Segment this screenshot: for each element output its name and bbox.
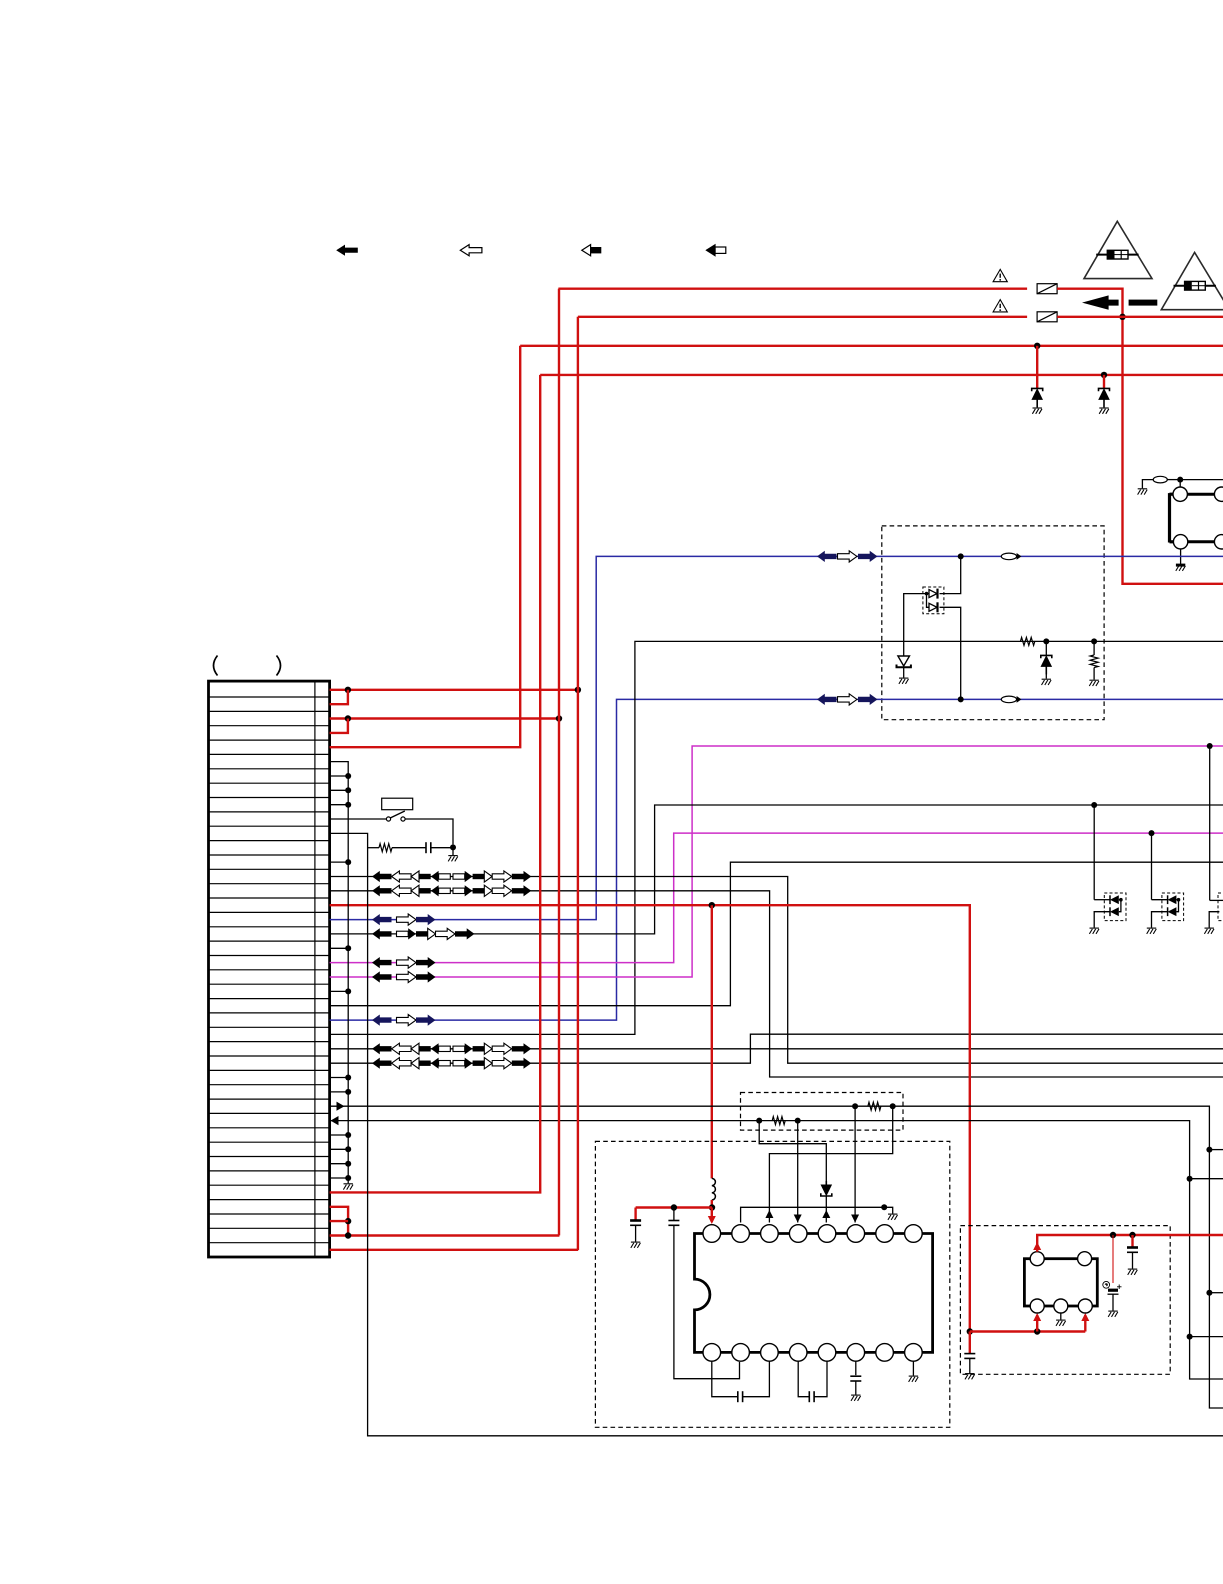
- IC U1 top pins: [703, 1225, 721, 1243]
- junction row31 branch y1178: [1187, 1176, 1193, 1182]
- ESD B2 upper diode (points left): [1168, 895, 1177, 904]
- wire pin32 to ground bus: [330, 1134, 349, 1136]
- wire IC1 pin4-bottom to C4: [798, 1361, 809, 1397]
- wire RC node to ground: [452, 847, 454, 855]
- arrow out on row30: [337, 1102, 345, 1111]
- wire branch right y1149: [1209, 1149, 1223, 1151]
- wire IC1 pin5 via zener D6: [759, 1121, 826, 1181]
- junction magenta row20 / ESD box2: [1149, 830, 1155, 836]
- wire motor feed to page edge: [1180, 479, 1223, 481]
- ESD B2 right node link: [1176, 900, 1178, 912]
- wire red supply row1 right segment to corner: [1057, 289, 1122, 317]
- ESD B2 lower diode (points left): [1168, 907, 1177, 916]
- polarity marker circled B: [1103, 1281, 1110, 1288]
- wire to zener D5: [1045, 641, 1047, 655]
- arrow group on row18: [372, 928, 392, 939]
- fusible-link triangle T1: [1084, 221, 1152, 278]
- resistor R3 on row30: [868, 1102, 881, 1110]
- ground below R2: [1089, 680, 1099, 686]
- dashed box ESD B1: [1104, 893, 1126, 921]
- arrow group on row26: [372, 1043, 392, 1054]
- junction supply row2 / x1122: [1119, 314, 1125, 320]
- ground below D1: [1032, 408, 1042, 414]
- wire C9 to RC node: [431, 847, 453, 849]
- ground IC1 top right: [888, 1214, 898, 1220]
- wire row18 junction down to ESD box1: [1093, 805, 1095, 900]
- legend arrow filled-head outline-tail: [706, 245, 715, 256]
- motor pin circle bottom-right: [1214, 535, 1223, 549]
- dashed box module M1: [882, 526, 1104, 720]
- wire pin29 to ground bus: [330, 1091, 349, 1093]
- wire pin19 to ground bus: [330, 947, 349, 949]
- ground ESD B2: [1147, 928, 1157, 934]
- wire IC1 pin1-bottom to C3: [712, 1361, 738, 1397]
- wire red pin36 net / riser x540: [330, 375, 541, 1193]
- wire magenta row21 net: [330, 746, 1223, 977]
- wire red bottom rail: [970, 1330, 1086, 1332]
- junction row30 / pin3 link: [890, 1103, 896, 1109]
- ground below C5: [851, 1395, 861, 1401]
- wire ESD B1 to ground: [1094, 912, 1110, 928]
- arrow group on row14: [372, 871, 392, 882]
- capacitor C9: [426, 842, 431, 853]
- junction top rail / ground stub: [881, 1204, 887, 1210]
- wire magenta row20 net: [330, 833, 1223, 963]
- wire pin11 long vertical: [330, 833, 1223, 1435]
- wire motor bottom pin to ground: [1180, 549, 1182, 565]
- wire IC1 pin6 from R3 (down): [854, 1106, 856, 1222]
- junction bus pin34: [345, 1161, 351, 1167]
- connector label parentheses: [214, 656, 218, 676]
- capacitor C5: [850, 1376, 861, 1381]
- wire red to zener D1: [1036, 346, 1038, 389]
- fusible-link triangle T2: [1161, 252, 1223, 309]
- wire red pin40 net: [330, 1249, 579, 1251]
- inductor L1: [712, 1178, 716, 1200]
- wire red to zener D2: [1103, 375, 1105, 389]
- wire IC2 middle bottom pin to ground: [1060, 1313, 1062, 1320]
- junction pin1 net / x578 riser: [575, 687, 581, 693]
- junction jumper pin38: [345, 1218, 351, 1224]
- ESD B1 lower diode (points left): [1110, 907, 1119, 916]
- dashed box ESD B3 (clipped): [1218, 893, 1223, 921]
- warning triangle W1: [993, 269, 1007, 281]
- ground below C8: [1128, 1269, 1138, 1275]
- junction jumper pin39: [345, 1232, 351, 1238]
- capacitor C7 (polarized): [1108, 1289, 1118, 1292]
- junction row3 / zener D1: [1034, 343, 1040, 349]
- junction pin3 net / x559 riser: [556, 715, 562, 721]
- dashed box resistor pair: [741, 1093, 904, 1131]
- wire pin33 to ground bus: [330, 1148, 349, 1150]
- wire to oval connector: [1142, 480, 1153, 489]
- junction red row16 / C6: [967, 1328, 973, 1334]
- wire branch right y1336: [1190, 1336, 1223, 1338]
- dashed box dual diode D3: [923, 587, 944, 614]
- wire pin35 to ground bus: [330, 1177, 349, 1179]
- wire C3 to pin3-bottom: [743, 1361, 769, 1397]
- junction bus pin35: [345, 1175, 351, 1181]
- capacitor C6 to ground: [969, 1332, 971, 1354]
- switch SW1: [386, 817, 390, 821]
- junction blue B in module: [958, 696, 964, 702]
- wire red pin5 net / riser x520: [330, 346, 521, 747]
- motor pin circle top-left: [1173, 487, 1187, 501]
- wire ESD B3 to ground: [1209, 912, 1219, 928]
- wire thin red to C7: [1112, 1235, 1114, 1283]
- junction magenta row21 / ESD box3: [1207, 743, 1213, 749]
- wire red to C8: [1131, 1235, 1133, 1247]
- zener diode D1: [1032, 388, 1043, 407]
- wire C7 to ground: [1112, 1294, 1114, 1310]
- ground bus bottom: [343, 1184, 353, 1190]
- wire red feed branch left: [636, 1206, 712, 1208]
- wire into ESD B2 top: [1152, 899, 1168, 901]
- wire red into IC2 pin1-bottom: [1036, 1315, 1038, 1332]
- wire C5 to ground: [855, 1381, 857, 1395]
- wire stub to ground: [884, 1207, 893, 1213]
- junction bus pin8: [345, 787, 351, 793]
- arrow group on blue B (module side): [817, 694, 837, 705]
- wire red rail corner up to IC2 pin3-bottom: [1084, 1315, 1086, 1332]
- wire red pin1 net: [330, 689, 578, 691]
- ground ESD B1: [1089, 928, 1099, 934]
- wire D6 to pin5: [825, 1196, 827, 1223]
- wire diode pair left node: [927, 594, 929, 608]
- zener diode D4: [903, 654, 905, 656]
- wire red row16 net: [330, 905, 970, 1331]
- ground below C7: [1108, 1311, 1118, 1317]
- junction pin1 jumper: [345, 687, 351, 693]
- junction row4 / zener D2: [1101, 372, 1107, 378]
- fuse icon inside T1: [1096, 250, 1138, 259]
- wire black row14 net: [330, 877, 1223, 1064]
- wire IC1 pin8-bottom to ground: [912, 1361, 914, 1376]
- junction bus pin28: [345, 1075, 351, 1081]
- big continuation arrow: [1082, 295, 1119, 309]
- wire link diode pair to blue B junction: [940, 607, 961, 699]
- junction R1 / zener D5: [1043, 638, 1049, 644]
- arrow in on row31: [331, 1116, 339, 1125]
- wire branch right y1292: [1209, 1292, 1223, 1294]
- arrow group on blue B (pin side): [372, 1015, 392, 1026]
- capacitor C4: [809, 1391, 814, 1402]
- wire black row15 net: [330, 891, 1223, 1077]
- IC U1 body: [695, 1234, 933, 1353]
- junction bus pin9: [345, 802, 351, 808]
- junction row30 / IC1 pin6: [852, 1103, 858, 1109]
- arrow group on blue A (pin side): [372, 914, 392, 925]
- motor pin circle top-right: [1214, 487, 1223, 501]
- wire red riser x559 (fuse1 net): [558, 289, 560, 1236]
- ESD B1 right node link: [1119, 900, 1121, 912]
- dashed box module M2 (IC1): [595, 1141, 949, 1427]
- junction RC node: [450, 844, 456, 850]
- resistor R4 on row31: [772, 1117, 785, 1125]
- wire red supply row3: [520, 345, 1223, 347]
- arrow group on blue A (module side): [817, 551, 837, 562]
- junction row18 net / ESD box1: [1091, 802, 1097, 808]
- wire pin10 to switch SW1: [330, 818, 387, 820]
- wire pin28 to ground bus: [330, 1077, 349, 1079]
- wire pin8 to ground bus: [330, 789, 349, 791]
- wire red supply row2 left segment: [578, 316, 1027, 318]
- wire into ESD B3: [1210, 899, 1223, 901]
- capacitor C8: [1127, 1248, 1138, 1253]
- wire into ESD B1 top: [1094, 899, 1110, 901]
- arrow group on magenta row21: [372, 971, 392, 982]
- junction bus pin22: [345, 988, 351, 994]
- wire pin22 to ground bus: [330, 990, 349, 992]
- wire black row26 net: [330, 1048, 1223, 1050]
- capacitor C1: [668, 1221, 679, 1226]
- junction bus pin7: [345, 773, 351, 779]
- capacitor C2: [630, 1221, 641, 1226]
- ground below IC2: [1056, 1320, 1066, 1326]
- ground below pin8: [909, 1376, 919, 1382]
- wire red into IC1 pin1 with arrow: [711, 1208, 713, 1223]
- motor thick wire bottom: [1188, 540, 1215, 543]
- wire black row30 net: [330, 1106, 1223, 1408]
- dashed box ESD B2: [1162, 893, 1184, 921]
- wire IC1 pin2 top rail: [741, 1207, 885, 1222]
- inline connector oval (motor feed): [1153, 476, 1167, 483]
- warning triangle W2: [993, 300, 1007, 312]
- wire red jumper pins1-2: [330, 690, 348, 704]
- junction row30 branch right: [1206, 1147, 1212, 1153]
- ground ESD B3: [1204, 928, 1214, 934]
- ground below RC node: [448, 856, 458, 862]
- wire red pin38 stub: [330, 1220, 349, 1222]
- dashed box module M3 (IC2): [960, 1226, 1170, 1375]
- fuse F1: [1037, 284, 1057, 294]
- wire red vertical to IC1 with inductor L1: [711, 905, 713, 1178]
- zener diode D2: [1099, 388, 1110, 407]
- junction bus pin29: [345, 1089, 351, 1095]
- wire pin34 to ground bus: [330, 1163, 349, 1165]
- wire oval to junction: [1167, 479, 1180, 481]
- junction pin3 jumper: [345, 715, 351, 721]
- resistor R1 on row25 net: [1020, 637, 1034, 645]
- zener diode D5: [1041, 655, 1052, 674]
- wire branch right y1178: [1190, 1178, 1223, 1180]
- junction motor feed: [1177, 477, 1183, 483]
- wire red pin39 net: [330, 1234, 560, 1236]
- wire switch to RC junction: [405, 819, 453, 844]
- wire black row27 net: [330, 1034, 1223, 1063]
- inline connector oval on blue B: [1001, 696, 1016, 703]
- wire black row18 net: [330, 805, 1223, 934]
- wire black row23 net: [330, 862, 1223, 1006]
- ground below C6: [965, 1374, 975, 1380]
- big continuation dash: [1129, 300, 1158, 306]
- wire red supply row1 left segment: [558, 288, 1027, 290]
- junction row30 branch y1292: [1206, 1290, 1212, 1296]
- junction rail / IC2 pin1b: [1034, 1328, 1040, 1334]
- fuse icon inside T2: [1174, 281, 1216, 290]
- wire black row31 net: [330, 1121, 1223, 1379]
- wire pin7 to ground bus: [330, 775, 349, 777]
- arrow group on row27: [372, 1058, 392, 1069]
- wire red pin37 jumper stub: [330, 1207, 349, 1236]
- motor thick wire top: [1187, 493, 1215, 496]
- ground below C2: [631, 1242, 641, 1248]
- IC U2 bottom pins: [1030, 1299, 1044, 1313]
- IC U2 top pins: [1030, 1252, 1044, 1266]
- ground motor left: [1138, 489, 1148, 495]
- wire ESD B2 to ground: [1152, 912, 1168, 928]
- junction bus pin32: [345, 1132, 351, 1138]
- junction blue A in module: [958, 553, 964, 559]
- capacitor C3: [738, 1391, 743, 1402]
- wire D5 to ground: [1045, 670, 1047, 678]
- wire red supply row2 right segment: [1057, 316, 1223, 318]
- motor pin circle bottom-left: [1173, 535, 1187, 549]
- wire red IC2 pin1-top to output rail: [1037, 1235, 1223, 1252]
- wire C8 to ground: [1132, 1252, 1134, 1268]
- switch SW1 label box: [382, 798, 413, 810]
- wire blue signal B row24 net: [330, 699, 1223, 1020]
- junction bus pin13: [345, 859, 351, 865]
- arrow group on magenta row20: [372, 957, 392, 968]
- resistor R5 (RC filter): [368, 847, 379, 849]
- wire pin9 to ground bus: [330, 804, 349, 806]
- wire D4 to ground: [903, 667, 905, 677]
- wire red down to capacitor C2: [634, 1208, 636, 1221]
- zener diode D6: [821, 1181, 832, 1196]
- wire ground bus from pin6: [330, 762, 349, 1184]
- wire red pin3 net: [330, 717, 559, 719]
- wire left node to zener D4: [904, 594, 927, 654]
- fuse F2: [1037, 312, 1057, 322]
- junction row31 branch y1336: [1187, 1334, 1193, 1340]
- connector J1 (40-pin) body: [209, 681, 330, 1257]
- ESD B1 upper diode (points left): [1110, 895, 1119, 904]
- arrow group on row15: [372, 885, 392, 896]
- junction red branch / C1: [671, 1204, 677, 1210]
- wire via capacitor C1 to IC1 pin2-bottom: [673, 1208, 675, 1221]
- wire pin13 to ground bus: [330, 861, 349, 863]
- wire red supply row4: [540, 374, 1223, 376]
- junction row16 / IC feed: [709, 902, 715, 908]
- junction bus pin33: [345, 1146, 351, 1152]
- ground motor bottom: [1176, 565, 1186, 571]
- wire red vertical x1122 to lower-right feed: [1123, 317, 1223, 584]
- wire IC1 pin3 to R3 box (up): [769, 1106, 892, 1222]
- ground below D5: [1042, 679, 1052, 685]
- legend arrow outline-head filled-tail: [582, 245, 591, 256]
- diode D3b (points right): [929, 603, 937, 611]
- junction red IC1 feed: [709, 1204, 715, 1210]
- motor thick bar: [1168, 493, 1171, 542]
- junction output rail / C8 branch: [1129, 1232, 1135, 1238]
- ground below D4: [899, 678, 909, 684]
- wire red riser x578 (fuse2 net): [577, 317, 579, 1250]
- wire junction down to motor pin: [1179, 480, 1181, 487]
- wire red inductor to junction: [711, 1200, 713, 1208]
- connector J1 pin separators: [209, 697, 330, 1243]
- legend arrow filled-left: [336, 245, 358, 256]
- wire magenta row21 junction down to ESD box3: [1209, 746, 1211, 900]
- wire C2 to ground: [635, 1225, 637, 1241]
- legend arrow outline-left: [460, 245, 482, 256]
- wire IC1 pin6-bottom to C5: [855, 1361, 857, 1375]
- wire IC1 pin4 from R4 (down): [797, 1121, 799, 1223]
- wire R5 to C9: [392, 847, 426, 849]
- resistor R2 to ground: [1093, 641, 1095, 655]
- ground below D2: [1099, 408, 1109, 414]
- wire C4 to pin5-bottom: [815, 1361, 828, 1397]
- wire magenta junction down to ESD box2: [1151, 833, 1153, 900]
- junction row31 / IC1 pin4: [795, 1118, 801, 1124]
- junction row31 / R4: [756, 1118, 762, 1124]
- inline connector oval on blue A: [1001, 553, 1016, 560]
- diode D3a (points right): [929, 590, 937, 598]
- junction bus pin19: [345, 945, 351, 951]
- wire blue signal A row17 net: [330, 556, 1223, 919]
- junction output rail / C7 branch: [1110, 1232, 1116, 1238]
- wire red jumper pins3-4: [330, 719, 348, 733]
- junction row25 net / resistor R2: [1091, 638, 1097, 644]
- IC U2 body: [1024, 1259, 1097, 1306]
- wire link blue A junction to diode pair: [940, 556, 961, 593]
- wire black row25 net (to module): [330, 641, 1223, 1034]
- IC U1 bottom pins: [703, 1344, 721, 1362]
- connector J1 inner divider: [314, 681, 316, 1257]
